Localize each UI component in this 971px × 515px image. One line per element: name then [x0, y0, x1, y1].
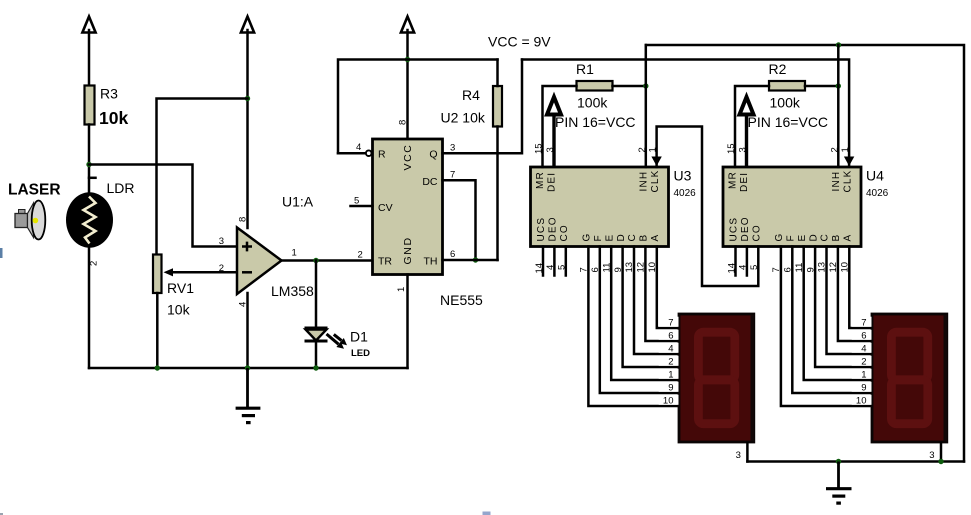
- ground rail left: [89, 367, 408, 370]
- wire RV1 wiper to op-amp pin2: [172, 271, 237, 274]
- U3 DEO stub pin4: [553, 247, 556, 276]
- U4 UCS stub pin14: [734, 247, 737, 276]
- wire U3 D to display: [623, 247, 679, 368]
- svg-text:B: B: [831, 235, 842, 242]
- svg-text:4: 4: [545, 265, 556, 270]
- svg-text:CLK: CLK: [842, 169, 853, 192]
- svg-text:U4: U4: [866, 168, 884, 184]
- node RV1-top/VCC junction: [245, 96, 250, 101]
- svg-text:7: 7: [861, 317, 866, 328]
- stray blue mark at left edge: [0, 248, 3, 258]
- svg-text:CLK: CLK: [650, 169, 661, 192]
- wire VCC to RV1 top: [157, 99, 248, 256]
- ground symbol left: [236, 368, 261, 424]
- node resistor/U3 INH: [643, 83, 648, 88]
- svg-text:NE555: NE555: [440, 292, 483, 308]
- wire RV1 bottom to ground rail: [156, 293, 159, 368]
- U3 CO stub pin5: [565, 247, 568, 276]
- node RV1/ground rail: [155, 365, 160, 370]
- display DISP2 pin 4 label: [852, 343, 872, 353]
- display DISP1 pin 9 label: [659, 382, 679, 392]
- svg-text:9: 9: [861, 382, 866, 393]
- wire op-amp out down to D1: [315, 261, 318, 329]
- svg-text:3: 3: [736, 450, 741, 461]
- node DC/TH junction: [473, 257, 478, 262]
- svg-text:6: 6: [668, 330, 673, 341]
- wire U3 MR to resistor: [543, 86, 577, 167]
- svg-text:4: 4: [861, 343, 866, 354]
- wire R4 bottom to TH: [496, 127, 499, 261]
- svg-text:4: 4: [238, 302, 249, 307]
- svg-text:U3: U3: [674, 168, 692, 184]
- svg-text:14: 14: [534, 263, 545, 274]
- svg-text:D: D: [616, 234, 627, 241]
- ground rail right: [747, 460, 964, 463]
- svg-text:1: 1: [861, 369, 866, 380]
- svg-text:13: 13: [817, 262, 828, 273]
- svg-text:6: 6: [590, 267, 601, 272]
- svg-text:A: A: [843, 235, 854, 242]
- svg-text:MR: MR: [728, 171, 739, 189]
- svg-text:R: R: [378, 148, 386, 160]
- wire U3 B to display: [645, 247, 679, 342]
- VCC flag arrow on U4 DEI: [740, 97, 754, 167]
- resistor R3: [85, 86, 95, 125]
- svg-text:RV1: RV1: [167, 280, 194, 296]
- wire display DISP2 pin3 to ground rail: [940, 443, 943, 462]
- svg-text:LED: LED: [351, 348, 370, 359]
- 555 CV stub: [351, 205, 373, 208]
- display DISP1 pin 4 label: [659, 343, 679, 353]
- svg-text:4: 4: [356, 142, 361, 153]
- svg-text:G: G: [582, 234, 593, 242]
- svg-text:LDR: LDR: [107, 180, 135, 196]
- 7-segment display DISP2: [872, 314, 947, 442]
- svg-text:R1: R1: [576, 61, 594, 77]
- svg-text:VCC = 9V: VCC = 9V: [488, 34, 551, 50]
- wire U4 F to display: [792, 247, 872, 394]
- svg-text:DC: DC: [422, 176, 438, 188]
- svg-text:12: 12: [636, 262, 647, 273]
- svg-text:10k: 10k: [99, 108, 128, 128]
- wire resistor to U3 INH junction: [613, 85, 646, 88]
- display DISP1 pin 7 label: [659, 317, 679, 327]
- svg-text:7: 7: [771, 267, 782, 272]
- node VCC rail junction: [405, 57, 410, 62]
- display DISP1 pin 10 label: [659, 395, 679, 405]
- wire U4 A to display: [849, 247, 872, 329]
- svg-text:3: 3: [450, 143, 455, 154]
- svg-text:7: 7: [579, 267, 590, 272]
- op-amp U1:A: [237, 228, 282, 295]
- resistor R4: [493, 86, 502, 127]
- svg-text:U2 10k: U2 10k: [441, 110, 486, 126]
- svg-text:D: D: [808, 234, 819, 241]
- wire U4 C to display: [827, 247, 873, 355]
- wire 555 GND pin to ground rail: [406, 275, 409, 369]
- svg-text:E: E: [797, 235, 808, 242]
- svg-text:4: 4: [738, 265, 749, 270]
- wire 555 DC loop: [443, 180, 476, 260]
- display DISP2 pin 2 label: [852, 356, 872, 366]
- wire R3 to LDR: [88, 125, 91, 194]
- wire R4 top: [496, 60, 499, 87]
- svg-text:GND: GND: [402, 236, 414, 264]
- LED emission arrows of D1: [327, 334, 348, 349]
- U4 DEO stub pin4: [746, 247, 749, 276]
- node display2 pin3 rail: [938, 459, 943, 464]
- counter U4 4026: [723, 167, 861, 247]
- wire U4 INH to rail A: [837, 45, 840, 167]
- svg-text:R3: R3: [100, 86, 118, 102]
- svg-text:2: 2: [219, 263, 224, 274]
- INH ground rail: [646, 45, 964, 462]
- svg-text:6: 6: [861, 330, 866, 341]
- svg-text:INH: INH: [639, 171, 650, 192]
- svg-text:1: 1: [292, 248, 297, 259]
- svg-text:UCS: UCS: [729, 217, 740, 242]
- wire reset loop to 555 pin4: [338, 152, 366, 155]
- diode D1 LED: [305, 328, 328, 341]
- svg-text:DEI: DEI: [739, 172, 750, 192]
- svg-text:100k: 100k: [770, 95, 801, 111]
- clock arrowhead at U3: [651, 157, 661, 167]
- power VCC arrow 2: [241, 17, 254, 33]
- wire op-amp output to 555 TR: [282, 259, 373, 262]
- wire power1 to R3: [88, 30, 91, 86]
- svg-text:9: 9: [805, 267, 816, 272]
- wire op-amp pin4 to ground rail: [246, 293, 249, 368]
- svg-text:A: A: [650, 235, 661, 242]
- node op-amp output/LED junction: [313, 258, 318, 263]
- svg-text:CO: CO: [559, 224, 570, 241]
- display DISP2 pin 7 label: [852, 317, 872, 327]
- svg-text:TH: TH: [424, 255, 438, 267]
- stray mark at bottom left corner: [0, 513, 3, 515]
- wire U4 G to display: [781, 247, 872, 407]
- svg-text:PIN 16=VCC: PIN 16=VCC: [748, 114, 829, 130]
- svg-text:MR: MR: [535, 171, 546, 189]
- svg-text:11: 11: [794, 263, 805, 273]
- svg-text:8: 8: [238, 217, 249, 222]
- node ground symbol right rail: [836, 459, 841, 464]
- svg-text:DEO: DEO: [740, 216, 751, 241]
- svg-text:CV: CV: [378, 202, 393, 214]
- timer U2 NE555: [373, 139, 443, 275]
- svg-text:4: 4: [668, 343, 673, 354]
- svg-text:1: 1: [396, 287, 407, 292]
- svg-text:UCS: UCS: [536, 217, 547, 242]
- LDR photoresistor: [66, 192, 113, 248]
- wire U3 F to display: [600, 247, 679, 394]
- wire resistor to U4 INH junction: [805, 85, 838, 88]
- ground symbol right: [826, 462, 852, 505]
- svg-text:2: 2: [861, 356, 866, 367]
- stray blue mark at bottom edge: [483, 512, 491, 515]
- svg-text:15: 15: [726, 143, 737, 154]
- svg-text:INH: INH: [831, 171, 842, 192]
- svg-text:5: 5: [557, 265, 568, 270]
- svg-text:3: 3: [929, 450, 934, 461]
- svg-text:2: 2: [358, 250, 363, 261]
- svg-text:3: 3: [219, 236, 224, 247]
- power VCC arrow 1: [82, 17, 95, 33]
- node op-amp pin4/ground rail: [245, 365, 250, 370]
- svg-text:CO: CO: [751, 224, 762, 241]
- svg-text:B: B: [639, 235, 650, 242]
- svg-text:PIN 16=VCC: PIN 16=VCC: [555, 114, 636, 130]
- svg-text:13: 13: [624, 262, 635, 273]
- VCC rail to reset loop and R4: [338, 60, 498, 154]
- wire LDR to ground rail: [88, 248, 91, 368]
- svg-text:11: 11: [601, 263, 612, 273]
- svg-text:R4: R4: [462, 87, 480, 103]
- svg-text:C: C: [820, 234, 831, 241]
- display DISP1 pin 6 label: [659, 330, 679, 340]
- 7-segment display DISP1: [679, 314, 754, 442]
- svg-text:7: 7: [668, 317, 673, 328]
- pin 1 tick of LDR: [89, 177, 96, 180]
- svg-text:F: F: [593, 235, 604, 241]
- svg-text:10: 10: [856, 395, 867, 406]
- wire 555 Q output to clock rail: [443, 60, 523, 154]
- svg-text:2: 2: [668, 356, 673, 367]
- svg-text:10k: 10k: [167, 302, 191, 318]
- display DISP2 pin 9 label: [852, 382, 872, 392]
- wire display DISP1 pin3 to ground rail: [746, 443, 749, 462]
- wire U3 E to display: [611, 247, 679, 381]
- svg-text:7: 7: [450, 170, 455, 181]
- wire U3 C to display: [634, 247, 679, 355]
- wire U3 A to display: [657, 247, 679, 329]
- svg-text:DEI: DEI: [547, 172, 558, 192]
- clock rail to U4 CLK: [522, 60, 849, 168]
- svg-text:Q: Q: [429, 148, 437, 160]
- display DISP2 pin 1 label: [852, 369, 872, 379]
- svg-text:4026: 4026: [674, 188, 697, 199]
- wire power2 shaft to op-amp pin8: [246, 30, 249, 228]
- svg-text:4026: 4026: [866, 188, 889, 199]
- svg-text:U1:A: U1:A: [282, 194, 314, 210]
- wiper arrow of RV1: [164, 268, 174, 276]
- wire power3 shaft to 555 VCC pin: [406, 30, 409, 139]
- svg-text:R2: R2: [769, 61, 787, 77]
- wire U4 B to display: [838, 247, 872, 342]
- svg-text:2: 2: [89, 261, 100, 266]
- svg-text:10: 10: [647, 262, 658, 273]
- svg-text:2: 2: [637, 147, 648, 152]
- minus input marker: [242, 271, 252, 274]
- resistor R2: [769, 81, 805, 91]
- clock arrowhead at U4: [844, 157, 854, 167]
- svg-text:9: 9: [668, 382, 673, 393]
- svg-text:15: 15: [534, 143, 545, 154]
- svg-text:100k: 100k: [577, 95, 608, 111]
- svg-text:LM358: LM358: [271, 283, 314, 299]
- display DISP1 pin 1 label: [659, 369, 679, 379]
- wire junction to op-amp pin3: [89, 165, 237, 247]
- power VCC arrow 3: [401, 17, 414, 33]
- node D1/ground rail: [313, 365, 318, 370]
- svg-text:12: 12: [828, 262, 839, 273]
- wire U3 INH to rail A: [645, 45, 648, 167]
- node rail A / U4 INH: [836, 42, 841, 47]
- display DISP2 pin 6 label: [852, 330, 872, 340]
- VCC flag arrow on U3 DEI: [547, 97, 561, 167]
- svg-text:1: 1: [840, 147, 851, 152]
- svg-text:F: F: [786, 235, 797, 241]
- display DISP1 pin 2 label: [659, 356, 679, 366]
- counter U3 4026: [531, 167, 669, 247]
- U3 UCS stub pin14: [542, 247, 545, 276]
- svg-text:DEO: DEO: [547, 216, 558, 241]
- svg-text:6: 6: [450, 249, 455, 260]
- svg-text:5: 5: [354, 196, 359, 207]
- wire D1 to ground rail: [315, 341, 318, 368]
- resistor R1: [577, 81, 613, 91]
- svg-text:2: 2: [829, 147, 840, 152]
- wire U4 E to display: [804, 247, 872, 381]
- svg-text:1: 1: [668, 369, 673, 380]
- svg-text:VCC: VCC: [402, 144, 414, 171]
- svg-text:9: 9: [613, 267, 624, 272]
- svg-text:G: G: [774, 234, 785, 242]
- node R3/LDR junction: [86, 162, 91, 167]
- svg-text:10: 10: [840, 262, 851, 273]
- svg-text:E: E: [604, 235, 615, 242]
- wire U4 MR to resistor: [735, 86, 769, 167]
- svg-text:8: 8: [398, 120, 409, 125]
- plus input marker: [242, 242, 252, 252]
- svg-text:10: 10: [663, 395, 674, 406]
- svg-text:D1: D1: [350, 329, 368, 345]
- wire U4 D to display: [815, 247, 872, 368]
- wire 555 TH to R4 bottom: [443, 259, 498, 262]
- svg-text:TR: TR: [378, 255, 392, 267]
- node resistor/U4 INH: [836, 83, 841, 88]
- laser emitter icon: [15, 201, 45, 240]
- inversion bubble on 555 reset pin: [366, 150, 372, 156]
- display DISP2 pin 10 label: [852, 395, 872, 405]
- wire U3 G to display: [588, 247, 679, 407]
- svg-text:LASER: LASER: [8, 182, 61, 199]
- svg-text:14: 14: [726, 263, 737, 274]
- svg-text:6: 6: [783, 267, 794, 272]
- svg-text:C: C: [627, 234, 638, 241]
- potentiometer RV1: [153, 255, 162, 294]
- wire U4 CO to U3 CLK: [657, 127, 759, 287]
